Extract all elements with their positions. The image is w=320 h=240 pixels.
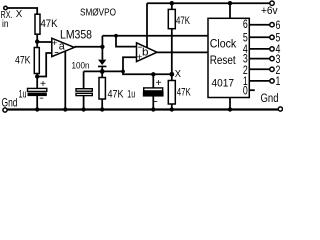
junction net tee node (121, 70, 125, 74)
op-amp a V- pin to ground (64, 51, 66, 109)
svg-text:+: + (137, 52, 143, 62)
svg-text:47K: 47K (108, 89, 125, 101)
resistor R1 47K (35, 14, 40, 34)
resistor R5 47K (168, 9, 175, 28)
ground rail (7, 108, 278, 110)
pin 4 terminal (270, 47, 274, 51)
wire R4 to ground (171, 104, 173, 110)
wire op-amp a output (74, 46, 102, 48)
pin 3 stub (249, 58, 269, 60)
svg-text:1u: 1u (127, 89, 135, 101)
svg-text:1u: 1u (19, 88, 27, 100)
junction node J2 (35, 74, 39, 78)
svg-text:a: a (59, 40, 66, 52)
pin 4 stub (249, 48, 269, 50)
wire R3 to ground (101, 99, 103, 110)
svg-text:Gnd: Gnd (2, 95, 18, 109)
wire input to R1 (8, 8, 38, 14)
svg-text:+6v: +6v (261, 5, 278, 17)
wire op-amp b V+ pin from +6v (146, 3, 148, 48)
wire +6v rail top (147, 2, 270, 4)
+6v terminal (270, 1, 274, 5)
svg-text:X: X (16, 8, 22, 20)
svg-text:SMØVPO: SMØVPO (80, 6, 116, 18)
capacitor C1 1u stem lower (36, 96, 38, 110)
junction rail C2 (151, 107, 155, 111)
junction node J1 (35, 39, 39, 43)
svg-text:5: 5 (243, 32, 248, 44)
capacitor C3 stem lower (83, 96, 85, 110)
wire R1 to node J1 to R2 (36, 34, 38, 47)
wire diode cathode to R3 (101, 67, 103, 77)
capacitor C2 stem upper (152, 74, 154, 88)
wire 4017 bottom to ground (229, 98, 231, 110)
pin 2 stub (249, 68, 269, 70)
junction node X (169, 72, 174, 77)
svg-text:+: + (156, 78, 162, 89)
svg-text:Clock: Clock (210, 37, 237, 51)
junction +6v 4017 node (228, 1, 232, 5)
junction rail C3 (81, 107, 85, 111)
svg-text:-: - (54, 48, 59, 59)
pin 6 stub (249, 24, 269, 26)
resistor R4 47K (168, 81, 175, 105)
svg-text:47K: 47K (41, 18, 59, 30)
svg-text:b: b (142, 47, 149, 59)
capacitor C2 stem lower (152, 96, 154, 110)
junction W1 branch node (114, 34, 118, 38)
svg-text:in: in (2, 18, 9, 30)
junction node N3 (100, 69, 105, 74)
wire R5 top lead (171, 3, 173, 9)
pin 0 stub (249, 89, 255, 91)
svg-text:LM358: LM358 (60, 28, 92, 42)
ground terminal right (278, 107, 282, 111)
svg-text:5: 5 (276, 33, 281, 45)
resistor R3 47K (99, 78, 105, 100)
junction op-amp a output node (100, 45, 104, 49)
svg-text:+: + (40, 79, 46, 90)
pin 5 stub (249, 36, 269, 38)
junction rail op-amp ground (63, 107, 67, 111)
pin 1 terminal (270, 79, 274, 83)
pin 1 stub (249, 80, 269, 82)
junction C2 top node (151, 72, 155, 76)
svg-text:47K: 47K (177, 87, 191, 99)
wire net diode to b+ branch (84, 70, 123, 72)
svg-text:X: X (175, 69, 182, 80)
IC 4017 box (208, 18, 249, 97)
capacitor C1 plates (28, 88, 47, 91)
wire node X to R4 (171, 74, 173, 80)
svg-text:-: - (39, 93, 44, 104)
svg-text:47K: 47K (176, 15, 190, 27)
resistor R2 47K (34, 48, 39, 74)
svg-text:Reset: Reset (210, 53, 237, 67)
junction rail R3 (100, 107, 104, 111)
wire node N2 vertical (101, 36, 103, 60)
svg-text:4017: 4017 (212, 77, 235, 89)
svg-text:0: 0 (243, 86, 248, 98)
op-amp U1a triangle (52, 38, 75, 56)
op-amp U1b triangle (137, 43, 158, 62)
capacitor C3 100n stem upper (83, 71, 85, 88)
wire R2 to node J2 (36, 74, 38, 89)
wire R5 bottom to node X (171, 29, 173, 75)
svg-text:47K: 47K (15, 54, 31, 66)
pin 3 terminal (270, 56, 274, 60)
svg-text:100n: 100n (72, 60, 90, 71)
capacitor C2 plates (144, 88, 163, 91)
svg-text:3: 3 (243, 54, 248, 66)
wire W1 to 4017 Clock (102, 35, 208, 37)
svg-text:+: + (52, 38, 58, 48)
diode D1 (98, 60, 106, 65)
pin 5 terminal (270, 35, 274, 39)
pin 2 terminal (270, 67, 274, 71)
svg-text:6: 6 (276, 20, 281, 32)
wire op-amp b + input branch (123, 57, 172, 74)
junction rail 4017 (228, 107, 232, 111)
svg-text:6: 6 (243, 19, 248, 31)
capacitor C3 plates (76, 89, 92, 92)
pin 6 terminal (270, 23, 274, 27)
wire op-amp b output to 4017 Reset (157, 51, 208, 53)
svg-text:-: - (153, 96, 158, 107)
svg-text:Gnd: Gnd (261, 93, 279, 105)
wire branch to op-amp b - input (116, 36, 137, 47)
svg-text:2: 2 (276, 65, 281, 77)
svg-text:1: 1 (276, 76, 281, 88)
junction rail R4 (170, 107, 174, 111)
wire +6v to 4017 top (229, 3, 231, 18)
ground terminal left (3, 108, 7, 112)
wire op-amp a - input feedback to J2 (37, 53, 52, 77)
junction R5 top node (170, 1, 174, 5)
input terminal RX in (4, 6, 8, 10)
wire J1 to op-amp a + input (37, 41, 52, 43)
junction rail C1 (35, 107, 39, 111)
